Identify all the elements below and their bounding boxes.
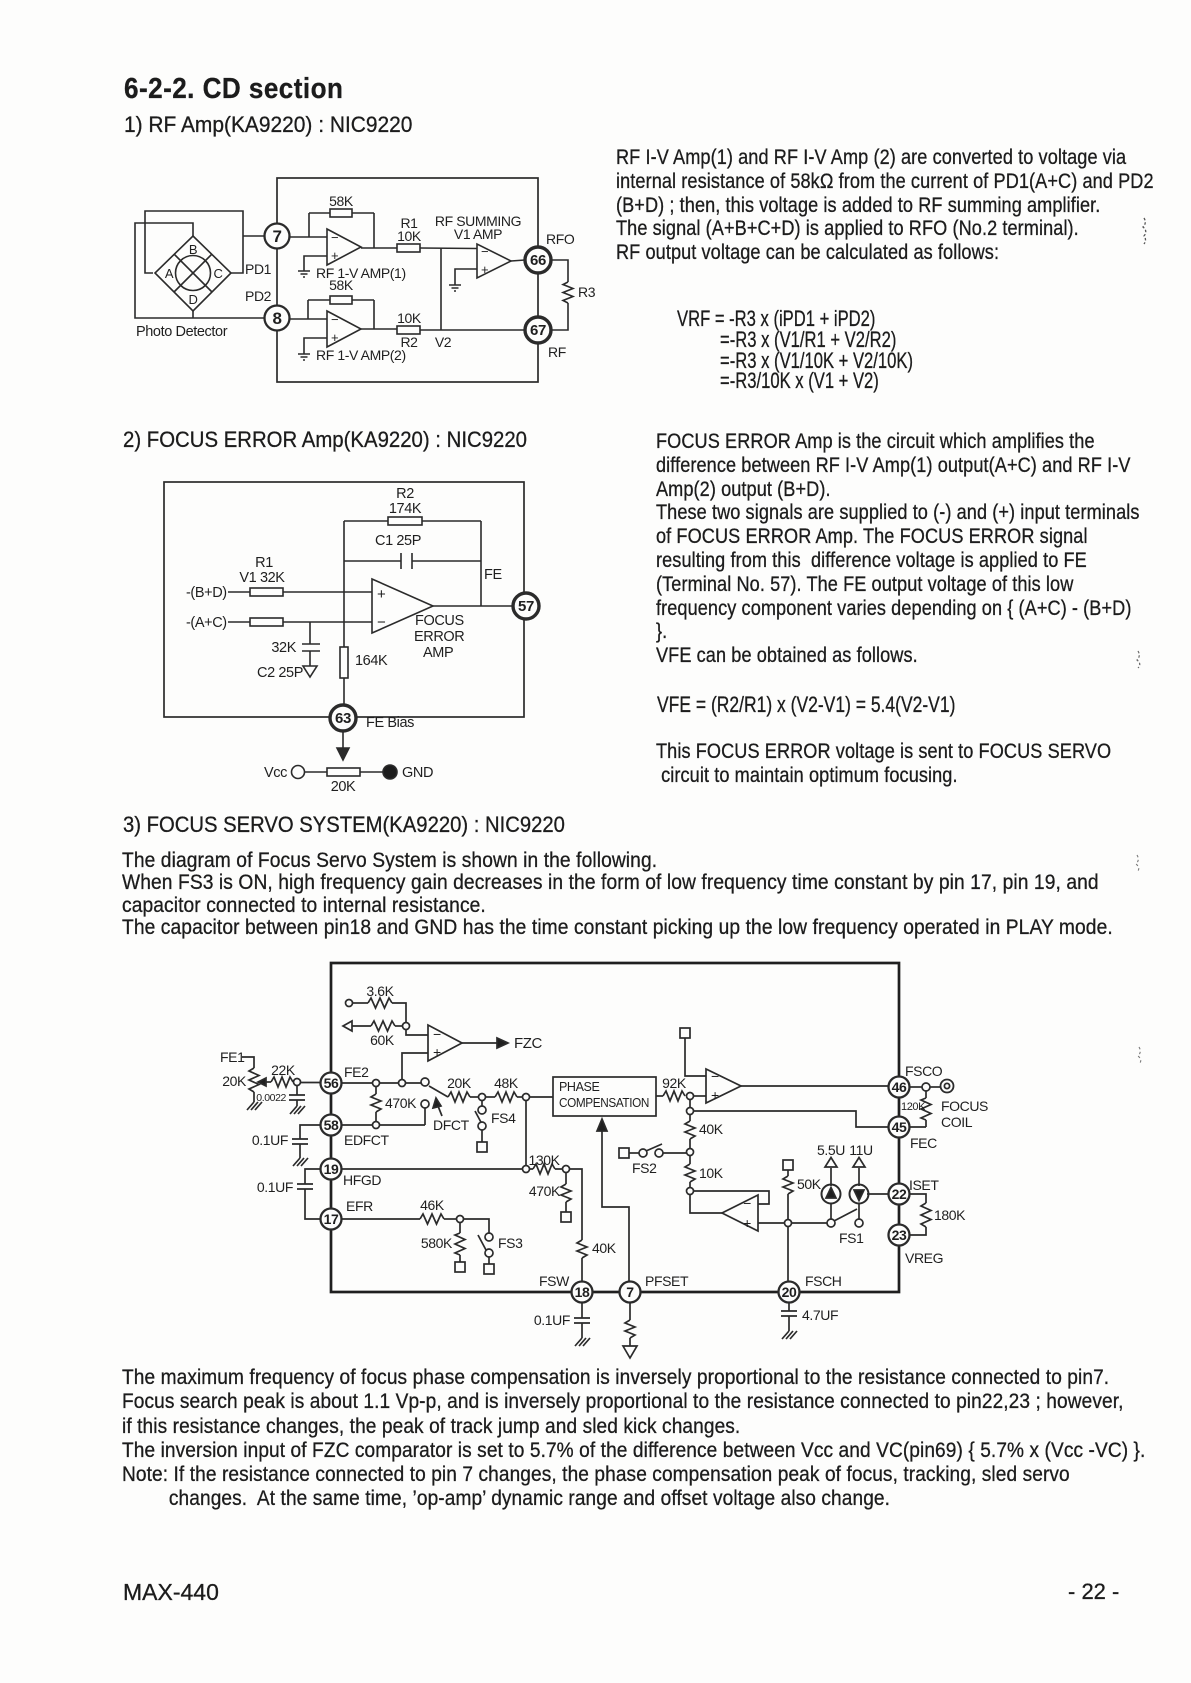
label EDFCT (344, 1132, 390, 1148)
current source 5.5U circle (822, 1185, 841, 1204)
svg-text:50K: 50K (797, 1176, 822, 1192)
svg-text:22K: 22K (271, 1062, 296, 1078)
FZC output arrowhead (497, 1038, 508, 1048)
label HFGD (343, 1172, 381, 1188)
wire pin 7 to op-amp U1 (289, 236, 327, 238)
resistor 60K (371, 1021, 395, 1031)
pin 45 (889, 1117, 910, 1138)
wire FZC output (462, 1042, 497, 1044)
svg-text:20: 20 (782, 1284, 797, 1300)
op-amp focus error amp (372, 579, 433, 633)
wire U2 output to R2 (361, 328, 397, 330)
svg-text:AMP: AMP (423, 645, 453, 661)
switch FS1 circle right (855, 1219, 863, 1227)
photo detector X cross (174, 254, 212, 292)
wire op-amp output to pin 57 (433, 605, 524, 607)
svg-text:FOCUS: FOCUS (941, 1098, 988, 1114)
wire 11U to pin 22 (867, 1193, 889, 1195)
wire node to pin 56 (301, 1082, 322, 1084)
wire capacitor to ground (299, 1144, 301, 1158)
svg-text:RF 1-V AMP(2): RF 1-V AMP(2) (316, 347, 406, 363)
footer right (1068, 1579, 1119, 1605)
pin 46 (889, 1077, 910, 1098)
pin 7 (servo) (620, 1282, 641, 1303)
wire pin 46 to FSCO terminal (909, 1086, 922, 1088)
svg-text:20K: 20K (222, 1073, 247, 1089)
label COMPENSATION (559, 1096, 649, 1110)
resistor 48K (495, 1092, 517, 1102)
label 164K (355, 653, 388, 669)
resistor 120K (921, 1091, 931, 1127)
pin 23 number (892, 1227, 907, 1243)
wire 60K to junction (395, 1025, 403, 1027)
ground hatch FSCH (782, 1331, 797, 1339)
svg-text:470K: 470K (385, 1095, 417, 1111)
svg-text:V1 32K: V1 32K (239, 570, 285, 586)
svg-text:HFGD: HFGD (343, 1172, 381, 1188)
svg-text:180K: 180K (934, 1207, 966, 1223)
svg-text:+: + (377, 586, 386, 603)
switch FS1 blade (834, 1209, 857, 1221)
pin 57 (513, 593, 539, 619)
label C1 25P (375, 533, 421, 549)
resistor 3.6K (368, 998, 392, 1008)
wire U3 output to pin 66 (511, 260, 525, 261)
label V2 (435, 334, 452, 350)
svg-text:−: − (711, 1068, 719, 1084)
label FS2 (632, 1160, 657, 1176)
plus FZC (433, 1044, 441, 1060)
junction node 470K lower (563, 1166, 570, 1173)
pin 58 (321, 1115, 342, 1136)
wire PD1 to pin 7 (243, 235, 265, 237)
svg-text:+: + (711, 1087, 719, 1103)
svg-text:174K: 174K (389, 501, 422, 517)
junction node 470K bottom (373, 1122, 380, 1129)
svg-text:FSCH: FSCH (805, 1273, 842, 1289)
capacitor C2 25P (302, 644, 320, 651)
svg-text:−: − (433, 1026, 441, 1042)
label 48K (494, 1075, 519, 1091)
wire FS3 to square (488, 1257, 490, 1264)
resistor R3 (563, 282, 573, 303)
svg-text:B: B (189, 242, 197, 257)
junction node 470K top (373, 1080, 380, 1087)
label 174K (389, 501, 422, 517)
label 10K upper (397, 228, 422, 244)
wire R2 to pin 67 (420, 329, 538, 331)
svg-text:GND: GND (402, 765, 433, 781)
svg-text:FEC: FEC (910, 1135, 937, 1151)
svg-text:4.7UF: 4.7UF (802, 1307, 838, 1323)
resistor 180K (921, 1203, 931, 1227)
resistor 470K (FE2 to EDFCT) (371, 1087, 381, 1122)
label 20K pot (222, 1073, 247, 1089)
svg-text:+: + (433, 1044, 441, 1060)
label A (165, 266, 174, 281)
wire node to FS3 (464, 1219, 490, 1233)
label -(A+C) (186, 615, 227, 631)
pin 57 number (518, 598, 534, 615)
resistor R1 10K (397, 244, 420, 252)
minus U1 (331, 230, 338, 245)
svg-text:V2: V2 (435, 334, 452, 350)
wire 20K to GND (360, 771, 383, 773)
feedback wire right U1 (373, 213, 375, 248)
label PD1 (245, 261, 272, 277)
label R2 (400, 334, 418, 350)
ground hatch EDFCT (293, 1158, 308, 1166)
phase compensation arrowhead (597, 1119, 607, 1131)
svg-text:PD1: PD1 (245, 261, 272, 277)
wire 164K to pin 63 (343, 678, 345, 706)
wire 3.6K left (353, 1002, 369, 1004)
pin 63 number (335, 710, 351, 727)
pin 67 number (530, 322, 546, 339)
label PD2 (245, 288, 272, 304)
resistor 164K (340, 647, 348, 678)
wire 48K to node (517, 1096, 523, 1098)
wire R3 to pin 67 (551, 303, 568, 330)
svg-text:0.1UF: 0.1UF (257, 1179, 293, 1195)
svg-text:FE Bias: FE Bias (366, 715, 414, 731)
wire 60K left (352, 1025, 371, 1027)
label C2 25P (257, 665, 303, 681)
pin 22 (889, 1184, 910, 1205)
label 470K upper (385, 1095, 417, 1111)
svg-text:+: + (481, 262, 488, 277)
label 5.5U (817, 1142, 845, 1158)
svg-text:RFO: RFO (546, 231, 575, 247)
wire pin 22 to 180K (909, 1194, 926, 1203)
pin 18 number (575, 1284, 590, 1300)
op-amp FZC comparator (428, 1025, 462, 1061)
wire FE Bias arrow (342, 731, 344, 750)
wire EFR pin 17 line (341, 1218, 420, 1220)
pin 66 number (530, 252, 546, 269)
resistor 10K lower (685, 1156, 695, 1188)
GND filled circle (383, 765, 397, 779)
wire 3.6K to junction (392, 1003, 406, 1023)
wire pin 8 to op-amp U2 (289, 318, 327, 320)
svg-text:58K: 58K (329, 277, 354, 293)
switch FS2 circle right (655, 1149, 663, 1157)
label FE Bias (366, 715, 414, 731)
label 180K (934, 1207, 966, 1223)
wire -(B+D) input (228, 591, 372, 593)
switch DFCT throw A circle (421, 1078, 429, 1086)
svg-text:−: − (377, 614, 386, 631)
label 0.1UF EDFCT (252, 1132, 288, 1148)
resistor 40K lower (577, 1240, 587, 1258)
heading 3 (123, 812, 565, 838)
resistor 58K (U1 feedback) (309, 209, 374, 217)
paragraph right of circuit 2 (656, 429, 1140, 667)
wire pin 18 to 0.1UF (581, 1302, 583, 1318)
label 11U (849, 1142, 873, 1158)
label R3 (578, 284, 596, 300)
capacitor C2 stub (309, 622, 311, 644)
wire R1 to summing node (420, 247, 477, 250)
op-amp buffer (left pointing) (722, 1195, 758, 1231)
wire 48K node drop (525, 1101, 527, 1166)
label FE (484, 567, 502, 583)
svg-text:Photo Detector: Photo Detector (136, 324, 228, 340)
label 40K upper (699, 1121, 724, 1137)
switch FS4 circle bottom (478, 1122, 486, 1130)
label FS4 (491, 1110, 516, 1126)
Vcc open circle (292, 766, 305, 779)
svg-text:PFSET: PFSET (645, 1273, 689, 1289)
label 580K (421, 1235, 453, 1251)
label FE1 tick wire (242, 1057, 254, 1068)
ground hatch FSW (575, 1338, 590, 1346)
svg-text:COMPENSATION: COMPENSATION (559, 1096, 649, 1110)
label RF 1-V AMP(1) (316, 265, 406, 281)
resistor below pin 7 (625, 1320, 635, 1338)
label 20K (331, 779, 356, 795)
switch FS2 circle left (639, 1149, 647, 1157)
wire 11U to FS1 (858, 1204, 860, 1220)
pin 18 (572, 1282, 593, 1303)
wire FZC plus input (402, 1053, 428, 1080)
footer left (123, 1579, 219, 1606)
current source 11U inner arrow (854, 1190, 864, 1201)
svg-text:FS1: FS1 (839, 1230, 864, 1246)
label 120K (901, 1101, 926, 1113)
feedback wire right U2 (373, 300, 375, 329)
label 130K (528, 1152, 560, 1168)
pin 19 number (324, 1161, 339, 1177)
left feedback vertical wire (343, 521, 345, 647)
wire HFGD pin 19 line (341, 1168, 523, 1170)
minus focus error amp (377, 614, 386, 631)
pin 7 number (272, 227, 281, 246)
junction node 120K top (922, 1083, 930, 1091)
svg-text:FE: FE (484, 567, 502, 583)
svg-text:C2 25P: C2 25P (257, 665, 303, 681)
wire pin 45 to 40K node (694, 1111, 890, 1127)
pin 56 number (324, 1075, 339, 1091)
junction node 48K right (523, 1094, 530, 1101)
svg-text:40K: 40K (699, 1121, 724, 1137)
right feedback vertical wire (480, 521, 482, 606)
svg-text:FZC: FZC (514, 1035, 543, 1052)
svg-text:0.1UF: 0.1UF (534, 1312, 570, 1328)
op-amp FSCO driver (706, 1069, 741, 1103)
wire Vcc to 20K (305, 771, 328, 773)
minus FSCO (711, 1068, 719, 1084)
ground stub U2 (304, 338, 327, 354)
wire 11U top (858, 1168, 860, 1186)
label R1 (255, 555, 273, 571)
junction node FZC plus (399, 1080, 406, 1087)
label FOCUS (941, 1098, 988, 1114)
wire pin 66 to R3 (551, 260, 568, 282)
wire node to 0.0022 cap (296, 1086, 298, 1096)
svg-text:ISET: ISET (909, 1177, 939, 1193)
svg-text:120K: 120K (901, 1101, 926, 1113)
svg-text:FS2: FS2 (632, 1160, 657, 1176)
plus U3 (481, 262, 488, 277)
label 32K (271, 640, 296, 656)
C2 ground triangle (303, 666, 317, 677)
junction node 60K (403, 1023, 410, 1030)
wire -(A+C) input (228, 621, 372, 623)
wire 40K to pin 18 (581, 1258, 583, 1282)
label -(B+D) (186, 585, 227, 601)
label FSCO (905, 1063, 943, 1079)
wire node to 40K drop (570, 1169, 583, 1240)
wire DFCT throw B to EDFCT line (424, 1108, 426, 1125)
resistor 46K (420, 1214, 444, 1224)
bottom paragraph (122, 1365, 1145, 1511)
label 22K (271, 1062, 296, 1078)
terminal square FS3 (484, 1264, 494, 1274)
wire node to 48K (486, 1096, 496, 1098)
wire FS2 to node (663, 1152, 687, 1154)
junction node 92K (687, 1093, 694, 1100)
svg-text:+: + (331, 248, 338, 263)
pin 63 (330, 705, 356, 731)
ground stub U3 (455, 269, 477, 285)
svg-text:FE2: FE2 (344, 1064, 369, 1080)
svg-text:D: D (189, 292, 198, 307)
heading 1 (124, 112, 412, 138)
ground U3 (449, 285, 461, 291)
svg-text:−: − (331, 312, 338, 327)
svg-text:22: 22 (892, 1186, 907, 1202)
ground U1 (298, 271, 310, 277)
svg-text:R2: R2 (400, 334, 418, 350)
svg-text:+: + (331, 330, 338, 345)
wire pin 58 capacitor stub (300, 1125, 321, 1139)
svg-text:92K: 92K (662, 1075, 687, 1091)
junction node FS2 (687, 1149, 694, 1156)
svg-text:DFCT: DFCT (433, 1117, 470, 1133)
wire 0.0022 to ground (296, 1100, 298, 1106)
svg-text:67: 67 (530, 322, 546, 339)
switch FS2 blade (646, 1144, 662, 1151)
label Photo Detector (136, 324, 228, 340)
svg-text:EFR: EFR (346, 1198, 373, 1214)
label 20K switch (447, 1075, 472, 1091)
wire FS4 stub (481, 1101, 483, 1107)
svg-text:ERROR: ERROR (414, 629, 464, 645)
potentiometer 20K (249, 1068, 259, 1092)
wire pin 19 capacitor stub (305, 1169, 321, 1184)
summing node vertical wire (440, 248, 442, 330)
label 40K lower (592, 1240, 617, 1256)
svg-text:20K: 20K (447, 1075, 472, 1091)
wire box to 92K (656, 1095, 663, 1097)
svg-text:−: − (331, 230, 338, 245)
label 0.1UF FSW (534, 1312, 570, 1328)
switch FS3 circle top (485, 1233, 493, 1241)
svg-text:66: 66 (530, 252, 546, 269)
heading 2 (123, 427, 527, 453)
section title (124, 73, 343, 106)
label 58K lower (329, 277, 354, 293)
svg-text:40K: 40K (592, 1240, 617, 1256)
wire 180K to pin 23 (909, 1227, 926, 1235)
label DFCT (433, 1117, 470, 1133)
wire wiper to 22K (266, 1081, 271, 1083)
60K input arrow (343, 1021, 352, 1031)
pin 58 number (324, 1117, 339, 1133)
plus U2 (331, 330, 338, 345)
svg-text:Vcc: Vcc (264, 765, 287, 781)
label ERROR (414, 629, 464, 645)
terminal square FS2 (619, 1148, 629, 1158)
svg-text:10K: 10K (397, 310, 422, 326)
svg-text:10K: 10K (699, 1165, 724, 1181)
wire node to phase compensation box (530, 1096, 554, 1098)
closing text of section 2 (656, 739, 1111, 787)
ground stub U1 (304, 256, 327, 271)
photo detector diamond (155, 236, 231, 311)
svg-text:7: 7 (272, 227, 281, 246)
junction node FSCH (785, 1220, 792, 1227)
svg-text:VREG: VREG (905, 1250, 943, 1266)
wire 5.5U to FS1 (830, 1204, 832, 1220)
wire buffer output (690, 1195, 722, 1214)
minus buffer (743, 1195, 751, 1211)
resistor R2 174K (388, 517, 422, 525)
wire junction to FZC minus input (406, 1030, 428, 1036)
svg-text:5.5U: 5.5U (817, 1142, 845, 1158)
label B (189, 242, 197, 257)
label FS3 (498, 1235, 523, 1251)
wire buffer plus input (758, 1222, 784, 1224)
photo detector PD1 wire loop (145, 211, 243, 273)
ground hatch 0.0022 (290, 1106, 305, 1114)
svg-text:580K: 580K (421, 1235, 453, 1251)
label FOCUS (415, 613, 464, 629)
svg-text:0.0022: 0.0022 (256, 1092, 286, 1104)
svg-text:PHASE: PHASE (559, 1080, 599, 1094)
svg-text:8: 8 (272, 309, 281, 328)
svg-text:63: 63 (335, 710, 351, 727)
ground triangle pin 7 (623, 1346, 637, 1358)
capacitor 0.1UF (HFGD-EFR) (297, 1184, 313, 1189)
resistor 580K (455, 1223, 465, 1263)
svg-text:+: + (743, 1215, 751, 1231)
svg-text:-(B+D): -(B+D) (186, 585, 227, 601)
switch FS4 blade (475, 1111, 483, 1126)
svg-text:48K: 48K (494, 1075, 519, 1091)
feedback wire left U2 (307, 300, 309, 319)
label PHASE (559, 1080, 599, 1094)
svg-text:20K: 20K (331, 779, 356, 795)
label 46K (420, 1197, 445, 1213)
capacitor C1 25P (401, 553, 412, 569)
svg-text:C: C (214, 266, 223, 281)
feedback wire left U1 (308, 213, 310, 237)
svg-text:RF: RF (548, 344, 566, 360)
label RFO (546, 231, 575, 247)
label 92K (662, 1075, 687, 1091)
svg-text:FSCO: FSCO (905, 1063, 943, 1079)
junction node 48K drop (523, 1166, 530, 1173)
pin 20 (779, 1282, 800, 1303)
terminal square FS4 (477, 1142, 487, 1152)
svg-text:R2: R2 (396, 486, 414, 502)
feedback top wire (344, 520, 481, 522)
potentiometer wiper arrow (258, 1078, 266, 1086)
current source 11U arrow symbol (853, 1158, 865, 1168)
svg-text:10K: 10K (397, 228, 422, 244)
